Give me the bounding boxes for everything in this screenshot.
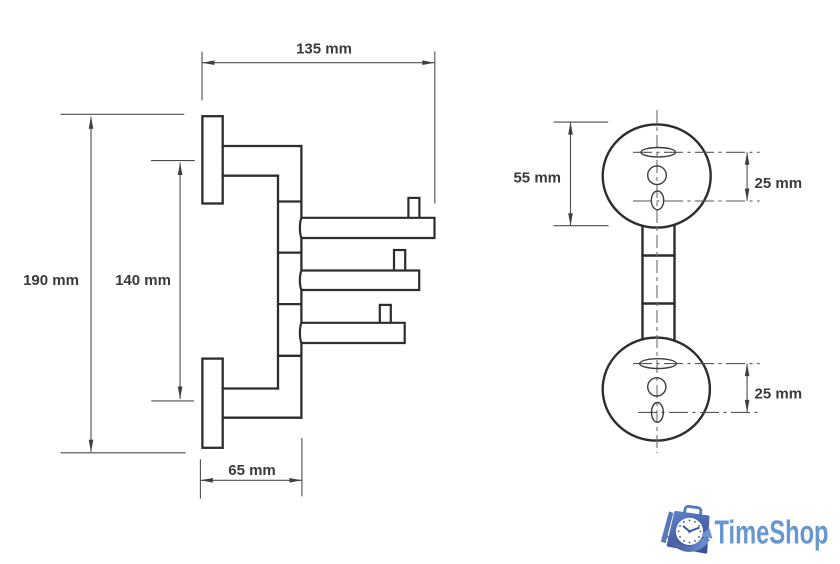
post joint line 4 — [278, 355, 301, 357]
hook peg 1 — [408, 198, 419, 220]
dashed line top lens — [633, 151, 760, 153]
svg-text:25 mm: 25 mm — [755, 386, 803, 403]
dimension 55 mm: top arrowhead — [568, 122, 573, 135]
svg-text:65 mm: 65 mm — [228, 462, 276, 479]
bottom oval — [652, 403, 664, 423]
post joint line 1 — [278, 200, 301, 202]
logo clock hands — [690, 528, 700, 532]
post joint line 2 — [278, 251, 301, 253]
dimension 25 mm bottom: top arrowhead — [745, 364, 750, 377]
dimension 140 mm: extension line bottom — [151, 400, 194, 402]
svg-text:140 mm: 140 mm — [115, 272, 171, 289]
neck joint line 1 — [641, 254, 675, 256]
dimension 190 mm: extension line bottom — [61, 452, 186, 454]
dimension 65 mm: extension line left — [199, 459, 201, 499]
bottom screw circle — [648, 378, 666, 396]
dimension 55 mm: extension line top — [554, 121, 609, 123]
top screw circle — [648, 166, 667, 185]
dimension 55 mm: dimension line — [570, 122, 572, 226]
logo back slab — [661, 511, 674, 543]
upper bracket arm bottom edge — [222, 175, 280, 177]
neck joint line 2 — [641, 302, 675, 304]
wall plate top — [202, 116, 222, 203]
hook arm 1 — [300, 218, 435, 238]
dimension 65 mm: extension line right — [301, 438, 303, 497]
svg-text:TimeShop: TimeShop — [715, 514, 829, 551]
top oval — [651, 191, 663, 210]
logo swoosh arrowhead — [702, 528, 713, 539]
dimension 140 mm: extension line top — [151, 160, 195, 162]
svg-text:190 mm: 190 mm — [23, 272, 79, 289]
logo clock ticks — [678, 519, 702, 543]
hook peg 2 — [394, 250, 405, 273]
logo swoosh junction patch — [703, 535, 711, 542]
dimension 65 mm: dimension line — [200, 479, 302, 481]
dimension 190 mm: bottom arrowhead — [89, 440, 94, 453]
dimension 135 mm: left arrowhead — [202, 60, 215, 65]
bottom lens ellipse — [640, 359, 677, 369]
dashed line bottom oval — [638, 411, 760, 413]
post right edge — [300, 145, 302, 419]
dimension 135 mm: extension line right — [434, 52, 436, 204]
logo bag handle — [684, 506, 701, 518]
svg-text:135 mm: 135 mm — [296, 41, 352, 58]
wall plate bottom — [202, 359, 222, 448]
upper bracket arm top edge — [222, 145, 303, 147]
lower bracket arm top edge — [222, 387, 280, 389]
dimension 135 mm: dimension line — [202, 62, 435, 64]
dashed line bottom lens — [633, 363, 760, 365]
neck left edge — [641, 226, 643, 339]
lower bracket arm bottom edge — [222, 417, 303, 419]
dimension 140 mm: dimension line — [179, 163, 181, 400]
dimension 65 mm: left arrowhead — [200, 478, 213, 483]
dimension 190 mm: extension line top — [61, 113, 185, 115]
hook arm 2 — [300, 271, 419, 291]
dimension 140 mm: bottom arrowhead — [178, 387, 183, 400]
dimension 135 mm: right arrowhead — [422, 60, 435, 65]
logo clock face — [676, 518, 703, 545]
dimension 25 mm top: bottom arrowhead — [745, 189, 750, 202]
svg-text:55 mm: 55 mm — [513, 170, 561, 187]
dimension 135 mm: extension line left — [201, 52, 203, 101]
dashed line top oval — [633, 200, 760, 202]
neck right edge — [673, 225, 675, 340]
dimension 25 mm top: top arrowhead — [745, 152, 750, 165]
dimension 25 mm bottom: bottom arrowhead — [745, 400, 750, 413]
vertical centerline — [656, 110, 658, 453]
dimension 25 mm top: dimension line — [746, 152, 748, 201]
logo swoosh arrow tail — [666, 535, 708, 552]
post joint line 3 — [278, 303, 301, 305]
dimension 190 mm: top arrowhead — [89, 116, 94, 129]
hook peg 3 — [380, 305, 391, 325]
hook arm 3 — [300, 323, 405, 343]
post left edge — [277, 175, 279, 390]
body top circle — [603, 124, 711, 227]
svg-text:25 mm: 25 mm — [755, 175, 803, 192]
body bottom circle — [603, 338, 710, 441]
logo bag body — [668, 512, 708, 552]
dimension 65 mm: right arrowhead — [289, 478, 302, 483]
top lens ellipse — [641, 148, 676, 157]
dimension 190 mm: dimension line — [90, 117, 92, 453]
dimension 25 mm bottom: dimension line — [746, 364, 748, 413]
dimension 140 mm: top arrowhead — [178, 163, 183, 176]
dimension 55 mm: bottom arrowhead — [568, 213, 573, 226]
dimension 55 mm: extension line bottom — [554, 225, 609, 227]
